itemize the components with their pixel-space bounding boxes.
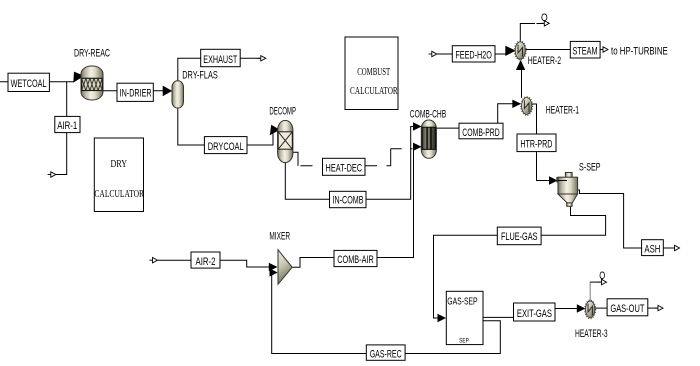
svg-text:GAS-REC: GAS-REC: [370, 349, 402, 361]
svg-text:DECOMP: DECOMP: [269, 106, 296, 118]
svg-text:HEAT-DEC: HEAT-DEC: [326, 163, 363, 175]
svg-text:DRYCOAL: DRYCOAL: [208, 141, 244, 153]
svg-text:DRY-FLAS: DRY-FLAS: [182, 70, 218, 82]
svg-text:FLUE-GAS: FLUE-GAS: [501, 231, 538, 243]
svg-text:CALCULATOR: CALCULATOR: [94, 189, 144, 200]
svg-text:MIXER: MIXER: [269, 230, 290, 242]
svg-text:IN-COMB: IN-COMB: [333, 194, 364, 206]
svg-text:COMBUST: COMBUST: [357, 67, 390, 78]
svg-text:FEED-H2O: FEED-H2O: [455, 50, 492, 62]
svg-text:COMB-AIR: COMB-AIR: [337, 254, 374, 266]
svg-text:IN-DRIER: IN-DRIER: [120, 87, 152, 99]
svg-text:DRY: DRY: [111, 159, 128, 170]
svg-text:HEATER-1: HEATER-1: [546, 105, 579, 117]
svg-text:to HP-TURBINE: to HP-TURBINE: [611, 45, 668, 57]
svg-text:EXIT-GAS: EXIT-GAS: [517, 308, 552, 320]
svg-text:GAS-OUT: GAS-OUT: [610, 303, 644, 315]
svg-text:SEP: SEP: [459, 337, 469, 344]
svg-text:HEATER-2: HEATER-2: [528, 55, 561, 67]
svg-text:S-SEP: S-SEP: [579, 162, 601, 174]
svg-text:ASH: ASH: [644, 243, 660, 255]
svg-text:GAS-SEP: GAS-SEP: [447, 296, 477, 308]
svg-text:STEAM: STEAM: [573, 45, 598, 57]
svg-text:WETCOAL: WETCOAL: [11, 78, 47, 90]
svg-text:AIR-2: AIR-2: [196, 256, 216, 268]
svg-text:AIR-1: AIR-1: [57, 120, 77, 132]
svg-text:HEATER-3: HEATER-3: [575, 328, 608, 340]
svg-text:EXHAUST: EXHAUST: [203, 54, 237, 66]
svg-text:DRY-REAC: DRY-REAC: [74, 47, 110, 59]
svg-text:COMB-CHB: COMB-CHB: [410, 109, 446, 121]
svg-text:COMB-PRD: COMB-PRD: [462, 127, 500, 139]
svg-text:CALCULATOR: CALCULATOR: [350, 86, 398, 97]
svg-text:HTR-PRD: HTR-PRD: [520, 139, 552, 151]
